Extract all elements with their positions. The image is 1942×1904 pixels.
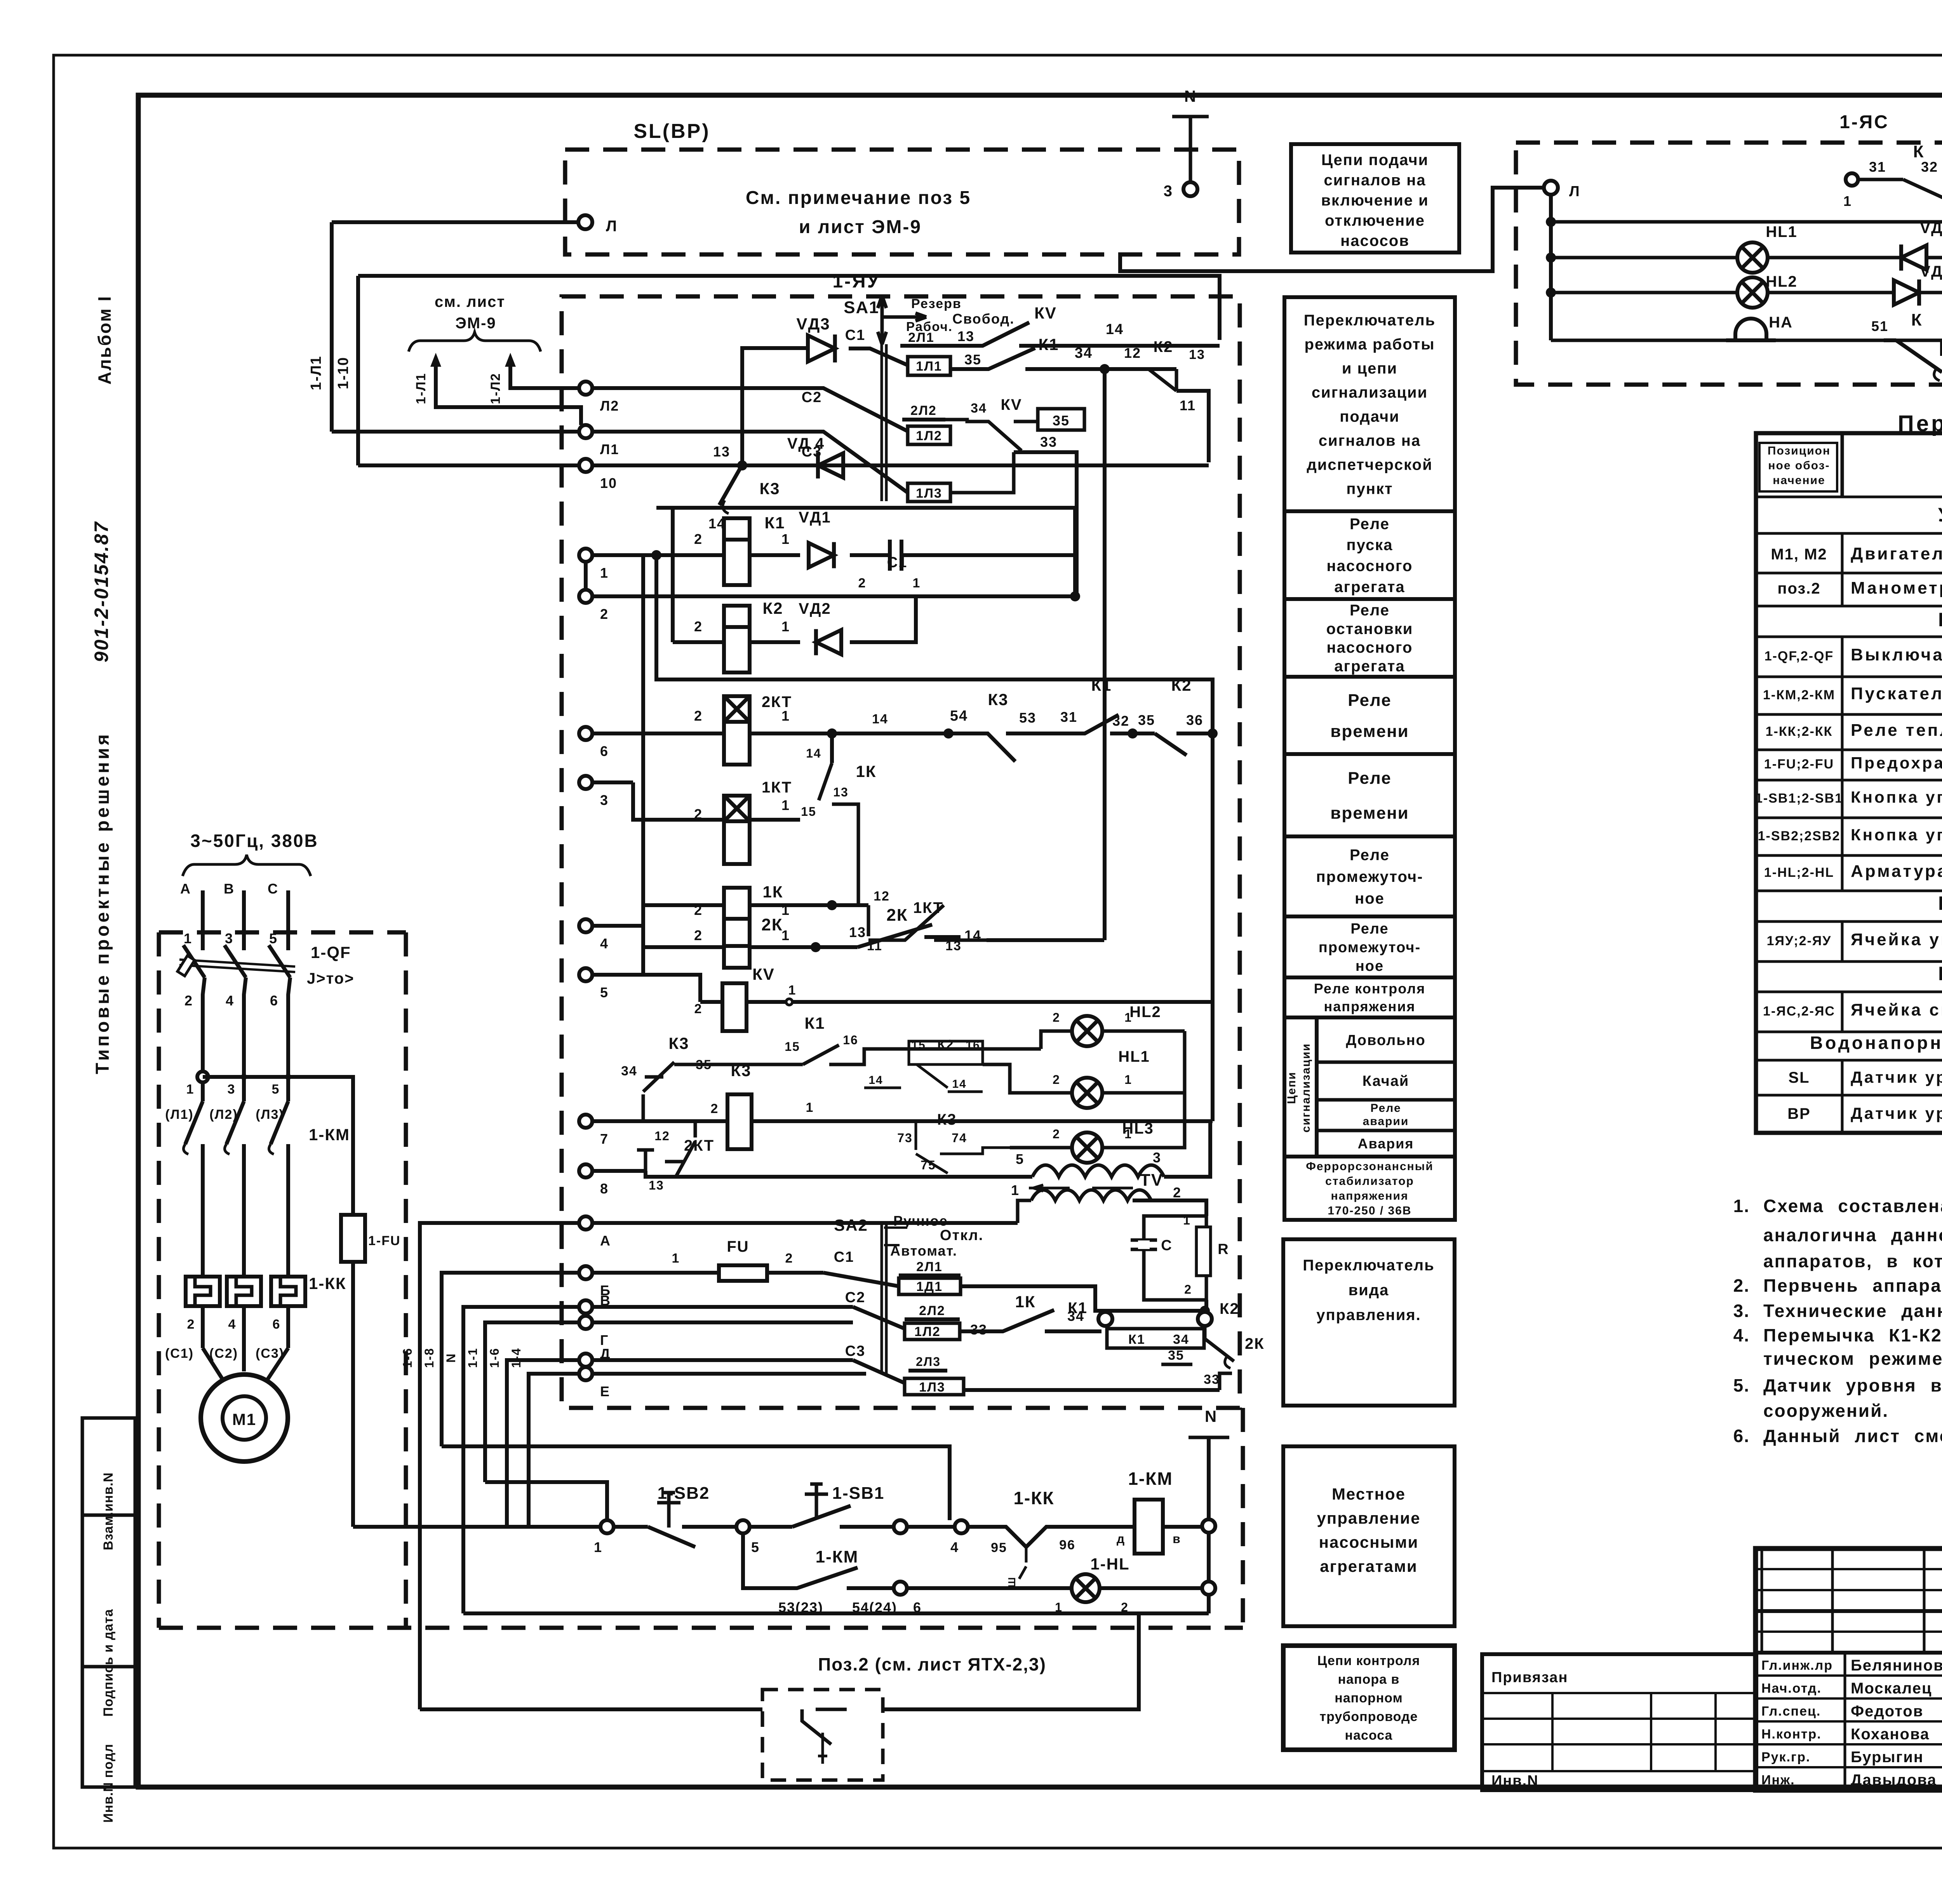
svg-text:(С1): (С1)	[165, 1346, 194, 1361]
svg-text:Данный лист смотреть с ли: Данный лист смотреть с листом. ЭМ-9.	[1763, 1426, 1942, 1446]
svg-text:Цепи контроля: Цепи контроля	[1317, 1653, 1420, 1668]
rail 10 to 11 stub	[592, 463, 1209, 467]
caption box stop relay	[1284, 599, 1455, 677]
caption box time relay 2	[1284, 754, 1455, 836]
svg-text:12: 12	[874, 889, 890, 904]
svg-text:аварии: аварии	[1363, 1115, 1409, 1128]
svg-text:2: 2	[858, 576, 867, 591]
svg-text:1: 1	[1183, 1213, 1191, 1227]
svg-text:Кнопка управления КЕ011УЗ и: Кнопка управления КЕ011УЗ испол. 2	[1851, 826, 1942, 844]
wire top link from 1-10 to KV rail	[358, 276, 1220, 340]
node K2 circle	[1198, 1312, 1212, 1326]
svg-text:Инв.N подл: Инв.N подл	[101, 1744, 116, 1822]
svg-text:Цепи подачи: Цепи подачи	[1321, 152, 1429, 169]
svg-text:Л: Л	[1569, 183, 1580, 200]
svg-text:насоса: насоса	[1345, 1728, 1393, 1743]
svg-text:К3: К3	[760, 479, 780, 498]
svg-text:1-ЯУ: 1-ЯУ	[832, 271, 880, 292]
svg-text:аналогична данной за исключ: аналогична данной за исключением маркиро…	[1763, 1225, 1942, 1245]
svg-text:VД 4: VД 4	[787, 435, 825, 452]
svg-text:Первчень аппаратуры составл: Первчень аппаратуры составлен для двух н…	[1763, 1275, 1942, 1296]
svg-text:Довольно: Довольно	[1346, 1032, 1426, 1049]
svg-text:К1: К1	[1091, 676, 1112, 694]
svg-text:Ячейка управления АН-370: Ячейка управления АН-370	[1851, 930, 1942, 949]
svg-text:32: 32	[1921, 159, 1938, 175]
svg-text:35: 35	[1053, 413, 1070, 429]
svg-text:4: 4	[950, 1539, 959, 1555]
terminal 7	[579, 1115, 592, 1128]
wire 1-L2 from EM-9	[510, 363, 579, 388]
wire rail 4 of 1-YaS	[1551, 339, 1942, 342]
rail 6 contacts chain	[592, 732, 724, 735]
svg-text:Подпись и дата: Подпись и дата	[101, 1609, 116, 1717]
svg-text:5: 5	[272, 1082, 280, 1097]
svg-text:1К: 1К	[1015, 1293, 1036, 1311]
wire 1-10 vertical	[356, 276, 360, 465]
svg-text:сигналов на: сигналов на	[1324, 172, 1426, 189]
svg-text:3.: 3.	[1733, 1301, 1750, 1321]
left vertical link	[641, 555, 645, 975]
terminal 10	[579, 459, 592, 472]
svg-text:К2: К2	[1220, 1300, 1239, 1317]
signal cell 1-YaS dashed outline	[1516, 143, 1942, 385]
node K1 circle	[1098, 1312, 1112, 1326]
svg-text:К1: К1	[1068, 1300, 1088, 1317]
svg-text:13: 13	[833, 785, 849, 799]
caption box local control	[1283, 1446, 1455, 1626]
svg-text:1: 1	[1124, 1010, 1132, 1024]
svg-text:HL1: HL1	[1766, 223, 1798, 240]
terminal 5	[579, 968, 592, 981]
svg-text:тическом режиме снимается.: тическом режиме снимается.	[1763, 1348, 1942, 1369]
svg-text:35: 35	[964, 352, 981, 368]
svg-text:1: 1	[781, 797, 790, 813]
svg-text:95: 95	[991, 1540, 1007, 1555]
svg-text:13: 13	[957, 328, 974, 344]
svg-text:1Л3: 1Л3	[916, 486, 942, 501]
svg-text:2: 2	[184, 993, 193, 1009]
wire RC to K2	[1204, 1300, 1208, 1311]
right bus of 1-YaU	[1211, 735, 1215, 1121]
svg-text:2: 2	[694, 531, 703, 547]
rail KV	[700, 1000, 722, 1004]
wire from SL terminal L to 1-YaU	[332, 220, 578, 224]
svg-text:Взам.инв.N: Взам.инв.N	[101, 1472, 116, 1550]
svg-text:ЭМ-9: ЭМ-9	[455, 315, 496, 332]
svg-text:4: 4	[226, 993, 234, 1009]
svg-text:1-FU: 1-FU	[368, 1233, 401, 1248]
svg-text:По месту: По месту	[1938, 892, 1942, 914]
lamp HL2 in 1-YaU	[1072, 1016, 1102, 1046]
svg-text:Свобод.: Свобод.	[952, 311, 1015, 327]
svg-text:73: 73	[897, 1131, 913, 1145]
svg-text:1ЯУ;2-ЯУ: 1ЯУ;2-ЯУ	[1767, 934, 1832, 948]
svg-text:2Л3: 2Л3	[916, 1355, 941, 1369]
transformer TV core	[1029, 1185, 1133, 1191]
terminal G	[579, 1316, 592, 1329]
svg-text:Водонапорная башня (резервуа: Водонапорная башня (резервуар) или напор…	[1810, 1033, 1942, 1053]
terminal link 1-2	[584, 562, 588, 590]
svg-text:сигнализации: сигнализации	[1300, 1043, 1312, 1132]
svg-text:1-ЯС: 1-ЯС	[1839, 112, 1889, 132]
svg-text:13: 13	[849, 924, 866, 940]
svg-text:2: 2	[600, 606, 609, 622]
svg-text:ное обоз-: ное обоз-	[1768, 459, 1830, 472]
terminal 4	[579, 919, 592, 932]
svg-text:1-FU;2-FU: 1-FU;2-FU	[1764, 757, 1834, 772]
svg-text:А: А	[180, 881, 191, 897]
svg-text:1-Л2: 1-Л2	[488, 373, 503, 404]
svg-text:времени: времени	[1330, 722, 1409, 741]
svg-text:3: 3	[1164, 183, 1173, 200]
contactor 1-KM main contacts	[197, 1071, 208, 1082]
terminal A	[579, 1216, 592, 1230]
svg-text:Качай: Качай	[1363, 1073, 1409, 1089]
svg-text:промежуточ-: промежуточ-	[1316, 868, 1423, 885]
terminal L of SL box	[578, 215, 592, 229]
svg-text:стабилизатор: стабилизатор	[1325, 1175, 1414, 1188]
wires to motor	[201, 1306, 205, 1348]
pos2 gauge dashed box	[762, 1690, 883, 1780]
svg-text:пункт: пункт	[1346, 481, 1393, 498]
svg-text:1Д1: 1Д1	[916, 1279, 943, 1294]
svg-text:Рук.гр.: Рук.гр.	[1761, 1750, 1810, 1765]
contact K 31-32	[1846, 173, 1858, 186]
svg-text:См. примечание поз 5: См. примечание поз 5	[746, 188, 971, 208]
svg-text:12: 12	[654, 1129, 670, 1143]
svg-text:(Л1): (Л1)	[165, 1107, 193, 1122]
svg-text:М1, М2: М1, М2	[1771, 546, 1827, 563]
svg-text:10: 10	[600, 475, 617, 491]
svg-text:1: 1	[913, 576, 921, 591]
svg-text:ВР: ВР	[1787, 1105, 1811, 1122]
svg-text:КV: КV	[1001, 396, 1022, 413]
wire rail 3 of 1-YaS	[1551, 291, 1942, 294]
svg-text:Белянинов: Белянинов	[1851, 1657, 1942, 1674]
svg-text:см. лист: см. лист	[435, 293, 505, 310]
svg-text:HL2: HL2	[1766, 273, 1798, 290]
svg-text:Позицион: Позицион	[1768, 444, 1831, 457]
contact K2 15-16 jumper	[909, 1041, 983, 1064]
svg-text:Цепи: Цепи	[1285, 1071, 1298, 1104]
svg-text:Давыдова: Давыдова	[1851, 1772, 1937, 1789]
svg-text:КV: КV	[752, 965, 775, 983]
bottom return wire	[463, 1611, 1209, 1615]
svg-text:74: 74	[952, 1131, 967, 1145]
pressure gauge contact symbol	[802, 1709, 847, 1744]
svg-text:С1: С1	[834, 1249, 854, 1265]
svg-text:К1: К1	[765, 514, 785, 532]
svg-text:N: N	[1184, 87, 1197, 105]
svg-text:6: 6	[270, 993, 278, 1009]
svg-text:31: 31	[1869, 159, 1886, 175]
svg-text:33: 33	[1204, 1372, 1220, 1387]
svg-text:1-QF,2-QF: 1-QF,2-QF	[1765, 649, 1834, 664]
svg-text:3~50Гц, 380В: 3~50Гц, 380В	[190, 831, 318, 851]
box 1L3	[908, 483, 950, 502]
svg-text:напряжения: напряжения	[1324, 998, 1416, 1014]
svg-text:N: N	[1205, 1407, 1217, 1425]
fuse 1-FU	[341, 1215, 365, 1262]
svg-text:агрегата: агрегата	[1334, 578, 1405, 596]
svg-text:С1: С1	[845, 327, 866, 343]
svg-text:SL(ВР): SL(ВР)	[633, 120, 710, 143]
svg-text:и лист ЭМ-9: и лист ЭМ-9	[799, 217, 922, 237]
svg-text:1-Л1: 1-Л1	[414, 373, 428, 404]
svg-text:HL1: HL1	[1118, 1048, 1150, 1065]
title block outline	[1756, 1549, 1942, 1790]
svg-text:и цепи: и цепи	[1342, 360, 1397, 377]
relay coil KV	[722, 983, 747, 1031]
svg-text:д: д	[1117, 1532, 1125, 1546]
svg-text:14: 14	[806, 746, 821, 760]
switch shaft SA1 column	[881, 344, 883, 501]
svg-text:диспетчерской: диспетчерской	[1307, 456, 1432, 474]
svg-text:2: 2	[187, 1317, 195, 1332]
svg-text:5: 5	[1016, 1151, 1024, 1167]
wire rail 2 to cap	[592, 594, 1075, 598]
parts table outer	[1756, 433, 1942, 1133]
svg-text:Гл.спец.: Гл.спец.	[1761, 1704, 1821, 1719]
svg-text:6: 6	[273, 1317, 281, 1332]
svg-text:1: 1	[788, 983, 797, 998]
svg-text:(С2): (С2)	[209, 1346, 238, 1361]
lamp right-end bus	[1183, 1031, 1187, 1148]
terminal 1 of local circuit	[600, 1520, 614, 1533]
svg-text:13: 13	[1189, 347, 1205, 362]
svg-text:2: 2	[694, 927, 703, 943]
svg-text:К3: К3	[669, 1034, 689, 1052]
svg-text:1-1: 1-1	[466, 1348, 480, 1368]
rail V	[592, 1305, 853, 1309]
svg-text:Федотов: Федотов	[1851, 1703, 1923, 1720]
svg-text:Привязан: Привязан	[1491, 1669, 1568, 1686]
caption box intermediate relay 2	[1284, 916, 1455, 977]
svg-text:14: 14	[964, 927, 981, 943]
svg-text:А: А	[600, 1233, 611, 1249]
svg-text:Реле: Реле	[1350, 602, 1390, 619]
terminal 3	[579, 776, 592, 789]
svg-text:трубопроводе: трубопроводе	[1320, 1709, 1418, 1724]
wire from 1L3	[950, 452, 1014, 493]
terminal L1	[579, 425, 592, 438]
svg-text:Переключатель: Переключатель	[1304, 312, 1436, 329]
svg-text:1-QF: 1-QF	[311, 943, 351, 962]
svg-text:отключение: отключение	[1325, 212, 1425, 229]
diode VD4	[818, 453, 843, 478]
rail B fuse FU	[592, 1271, 719, 1275]
rail E	[592, 1372, 866, 1376]
svg-text:901-2-0154.87: 901-2-0154.87	[90, 521, 112, 662]
svg-text:Инв.N: Инв.N	[1491, 1773, 1539, 1789]
wire branch to fuse 1-FU	[203, 1077, 353, 1215]
box 1L1	[908, 357, 950, 375]
rail 1K	[643, 903, 724, 907]
svg-text:Е: Е	[600, 1383, 610, 1399]
svg-text:Реле: Реле	[1350, 921, 1389, 937]
svg-text:13: 13	[945, 939, 962, 953]
box K1 34	[1107, 1329, 1204, 1348]
svg-text:(Л2): (Л2)	[209, 1107, 238, 1122]
svg-text:1-ЯС,2-ЯС: 1-ЯС,2-ЯС	[1763, 1004, 1835, 1019]
capacitor C	[1131, 1231, 1157, 1300]
svg-text:SА1: SА1	[844, 298, 879, 317]
contact K 51-52	[1884, 340, 1942, 372]
svg-text:HL2: HL2	[1129, 1003, 1161, 1021]
svg-text:Резерв: Резерв	[911, 296, 962, 311]
svg-text:35: 35	[1138, 712, 1155, 728]
svg-text:13: 13	[713, 444, 730, 460]
svg-text:Реле: Реле	[1348, 768, 1392, 787]
svg-text:1: 1	[781, 618, 790, 634]
svg-text:Технические данные электроо: Технические данные электрооборудования с…	[1763, 1301, 1942, 1321]
svg-text:Щит управления ШЩ. Шкаф: Щит управления ШЩ. Шкаф 2	[1938, 609, 1942, 631]
lamp HL3 in 1-YaU	[1072, 1132, 1102, 1163]
sensor box SL(BP) dashed outline	[565, 150, 1239, 254]
svg-text:Л2: Л2	[600, 398, 619, 414]
svg-text:К2: К2	[1171, 676, 1192, 694]
relay coil K1	[724, 518, 750, 585]
svg-text:35: 35	[1168, 1348, 1184, 1363]
svg-text:1: 1	[1843, 193, 1852, 209]
svg-text:6: 6	[600, 743, 609, 759]
svg-text:8: 8	[600, 1181, 609, 1197]
svg-text:2К: 2К	[1245, 1335, 1265, 1352]
wire link rails	[656, 555, 1213, 735]
svg-text:11: 11	[1180, 397, 1196, 413]
wire upper links	[442, 1446, 950, 1520]
svg-text:2: 2	[785, 1251, 794, 1266]
right N wire of local circuit	[1202, 1519, 1215, 1533]
svg-text:Феррорсзонансный: Феррорсзонансный	[1306, 1160, 1434, 1173]
svg-text:14: 14	[952, 1078, 966, 1090]
svg-text:SА2: SА2	[834, 1216, 868, 1234]
svg-text:Датчик уровня поплавковый Д: Датчик уровня поплавковый ДП-374	[1851, 1068, 1942, 1086]
svg-text:1: 1	[600, 565, 609, 581]
terminal 1	[579, 549, 592, 562]
terminal 6	[579, 727, 592, 740]
terminal L of 1-YaS	[1544, 181, 1558, 195]
svg-text:Реле контроля: Реле контроля	[1314, 981, 1425, 996]
rail D	[592, 1358, 853, 1362]
svg-text:1: 1	[781, 708, 790, 724]
svg-text:К2: К2	[763, 599, 783, 617]
box 1D1 bottom	[899, 1278, 961, 1294]
svg-text:1: 1	[672, 1251, 680, 1266]
svg-text:Предохранитель ППТ-10УЗ, пл.в: Предохранитель ППТ-10УЗ, пл.вставка 6А	[1851, 754, 1942, 772]
svg-text:3: 3	[1153, 1150, 1161, 1165]
svg-text:2: 2	[711, 1101, 719, 1116]
svg-text:4: 4	[228, 1317, 237, 1332]
svg-text:36: 36	[1186, 712, 1203, 728]
svg-text:Ячейка сигнализации ЯС-373: Ячейка сигнализации ЯС-373	[1851, 1000, 1942, 1019]
svg-text:С: С	[268, 881, 278, 897]
svg-text:Авария: Авария	[1358, 1136, 1414, 1151]
svg-text:Реле: Реле	[1370, 1102, 1401, 1115]
motor feeder dashed box	[157, 932, 161, 1628]
svg-text:1-КМ,2-КМ: 1-КМ,2-КМ	[1763, 688, 1835, 702]
caption box intermediate relay 1	[1284, 836, 1455, 916]
local control dashed box	[159, 1626, 1243, 1630]
svg-text:1-Л1: 1-Л1	[308, 355, 324, 390]
svg-text:1Л2: 1Л2	[916, 429, 942, 443]
svg-text:14: 14	[872, 712, 888, 726]
resistor R	[1197, 1227, 1210, 1275]
svg-text:Автомат.: Автомат.	[890, 1243, 957, 1259]
relay coil K3	[727, 1094, 752, 1149]
svg-text:Нач.отд.: Нач.отд.	[1761, 1681, 1822, 1696]
svg-text:1: 1	[1124, 1127, 1132, 1141]
svg-text:С2: С2	[845, 1289, 866, 1306]
svg-text:К1: К1	[805, 1014, 825, 1032]
svg-text:2Л2: 2Л2	[910, 403, 937, 418]
svg-text:J>то>: J>то>	[307, 970, 354, 987]
svg-text:подачи: подачи	[1340, 408, 1400, 425]
wire 5	[592, 975, 700, 1002]
title block columns upper	[1761, 1549, 1763, 1653]
svg-text:VД3: VД3	[1920, 219, 1942, 237]
svg-text:Типовые проектные решения: Типовые проектные решения	[92, 732, 113, 1074]
svg-text:1КТ: 1КТ	[762, 779, 792, 796]
caption box start relay	[1284, 511, 1455, 599]
bell HA	[1726, 319, 1776, 340]
svg-text:12: 12	[1124, 345, 1141, 361]
caption box feed signal circuits	[1291, 144, 1459, 253]
contact 2K bottom	[1205, 1326, 1234, 1361]
svg-text:VД4: VД4	[1920, 263, 1942, 280]
motor M1	[201, 1374, 288, 1462]
box 1L2 bottom	[905, 1323, 960, 1340]
svg-text:1Л2: 1Л2	[914, 1324, 941, 1339]
svg-text:2Л1: 2Л1	[916, 1259, 943, 1274]
caption box ferroresonance stabilizer	[1284, 1157, 1455, 1220]
svg-text:96: 96	[1059, 1538, 1075, 1552]
terminal 3 of SL box	[1183, 182, 1197, 196]
svg-text:5: 5	[600, 984, 609, 1000]
svg-text:Альбом I: Альбом I	[94, 295, 115, 385]
svg-text:51: 51	[1871, 318, 1888, 334]
wire from 1D1 to K1 node	[961, 1286, 1206, 1311]
svg-text:в: в	[1173, 1532, 1181, 1546]
svg-text:2: 2	[694, 618, 703, 634]
contact 1K below rail 6	[830, 733, 834, 763]
diode VD4	[1894, 280, 1919, 305]
terminal V	[579, 1300, 592, 1313]
svg-text:Инж.: Инж.	[1761, 1773, 1795, 1787]
svg-text:2Л1: 2Л1	[908, 330, 934, 345]
relay coil 2KT	[724, 696, 750, 722]
svg-text:1К: 1К	[763, 883, 783, 901]
svg-text:5.: 5.	[1733, 1375, 1750, 1395]
svg-text:Ручное: Ручное	[893, 1213, 948, 1229]
node 6	[894, 1582, 907, 1595]
svg-text:пуска: пуска	[1347, 537, 1393, 554]
stub 33	[1014, 452, 1077, 595]
RC snubber loop	[1133, 1200, 1206, 1216]
svg-text:Арматура светосигнальная: Арматура светосигнальная	[1851, 862, 1942, 881]
svg-text:Переключатель: Переключатель	[1303, 1257, 1435, 1274]
svg-text:4: 4	[600, 935, 609, 951]
svg-text:аппаратов, в которой индек: аппаратов, в которой индекс „1" меняется…	[1763, 1251, 1942, 1271]
svg-text:Двигатель: Двигатель	[1851, 544, 1942, 563]
wire local feed rail	[353, 1525, 600, 1529]
svg-text:У механизма: У механизма	[1938, 504, 1942, 526]
svg-text:Реле: Реле	[1348, 691, 1392, 710]
svg-text:15: 15	[801, 805, 816, 819]
caption box pressure control circuits	[1283, 1646, 1455, 1750]
wire 8 rail	[592, 1169, 646, 1173]
svg-text:К1: К1	[1039, 335, 1059, 354]
